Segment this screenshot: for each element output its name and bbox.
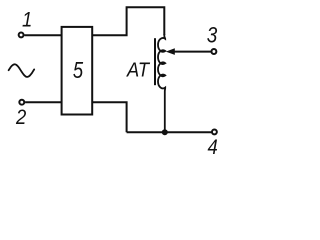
AC source sine symbol [9, 64, 35, 77]
svg-text:5: 5 [73, 58, 84, 83]
svg-text:3: 3 [207, 23, 218, 48]
wire box bottom-right to bottom rail [92, 102, 126, 132]
tap arrow wire to terminal 3 [174, 51, 211, 53]
wire terminal1 to box [24, 34, 62, 36]
svg-text:1: 1 [22, 8, 32, 31]
svg-text:4: 4 [208, 136, 218, 159]
terminal 3 [211, 49, 216, 54]
bottom rail wire [127, 131, 212, 133]
wire box top-right to riser and top rail [92, 7, 164, 35]
autotransformer AT winding [158, 34, 165, 132]
terminal 4 [212, 129, 217, 134]
junction dot [162, 129, 168, 135]
terminal 1 [19, 32, 24, 37]
svg-text:AT: AT [126, 59, 151, 81]
svg-text:2: 2 [15, 106, 26, 129]
wire terminal2 to box [25, 101, 62, 103]
tap arrowhead [166, 48, 175, 55]
block 5 (rectangle) [62, 27, 93, 115]
AT core line [154, 38, 156, 85]
terminal 2 [19, 100, 24, 105]
